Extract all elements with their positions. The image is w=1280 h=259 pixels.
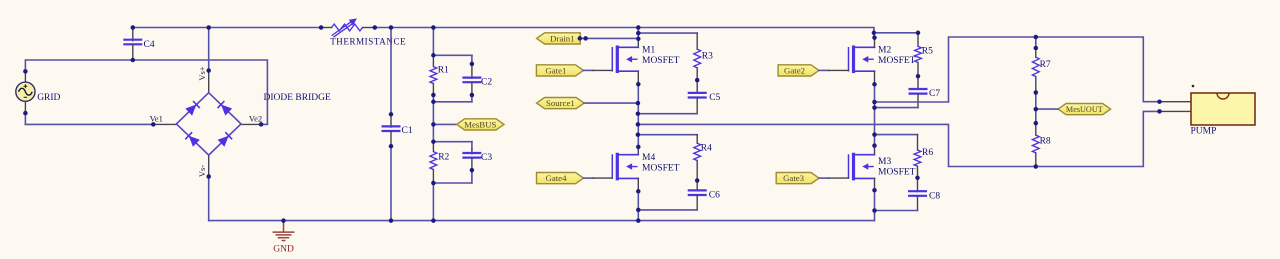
svg-text:M2: M2	[878, 46, 891, 56]
svg-text:Drain1: Drain1	[550, 34, 574, 44]
svg-text:MOSFET: MOSFET	[878, 168, 916, 178]
svg-text:C3: C3	[481, 153, 492, 163]
svg-text:R4: R4	[701, 143, 712, 153]
svg-text:C7: C7	[929, 89, 940, 99]
svg-text:C2: C2	[481, 77, 492, 87]
svg-text:GRID: GRID	[37, 93, 60, 103]
svg-text:C6: C6	[709, 191, 720, 201]
svg-text:R7: R7	[1040, 60, 1051, 70]
svg-text:Gate4: Gate4	[545, 173, 567, 183]
svg-text:Ve1: Ve1	[150, 114, 163, 124]
svg-text:C1: C1	[402, 126, 413, 136]
svg-text:R8: R8	[1040, 136, 1051, 146]
svg-text:R2: R2	[438, 152, 449, 162]
svg-text:C4: C4	[144, 40, 155, 50]
svg-text:MesBUS: MesBUS	[464, 120, 496, 130]
svg-text:DIODE BRIDGE: DIODE BRIDGE	[264, 93, 331, 103]
svg-text:Vs+: Vs+	[197, 66, 207, 80]
svg-text:R1: R1	[438, 65, 449, 75]
svg-text:R3: R3	[702, 52, 713, 62]
svg-text:PUMP: PUMP	[1191, 127, 1217, 137]
svg-text:R5: R5	[922, 46, 933, 56]
svg-text:M1: M1	[642, 46, 655, 56]
svg-text:C5: C5	[709, 93, 720, 103]
svg-text:R6: R6	[922, 148, 933, 158]
svg-text:Gate1: Gate1	[545, 66, 566, 76]
svg-text:M3: M3	[878, 157, 891, 167]
svg-text:Gate3: Gate3	[783, 173, 805, 183]
svg-text:MOSFET: MOSFET	[642, 164, 680, 174]
svg-text:MOSFET: MOSFET	[878, 56, 916, 66]
svg-text:Source1: Source1	[546, 98, 575, 108]
svg-text:Ve2: Ve2	[249, 114, 262, 124]
svg-text:Vs-: Vs-	[197, 165, 207, 177]
svg-text:M4: M4	[642, 153, 655, 163]
svg-text:THERMISTANCE: THERMISTANCE	[330, 37, 406, 47]
svg-text:MOSFET: MOSFET	[642, 56, 680, 66]
svg-text:MesUOUT: MesUOUT	[1066, 105, 1103, 114]
svg-text:GND: GND	[273, 244, 294, 254]
svg-text:C8: C8	[929, 192, 940, 202]
svg-text:Gate2: Gate2	[784, 66, 805, 76]
